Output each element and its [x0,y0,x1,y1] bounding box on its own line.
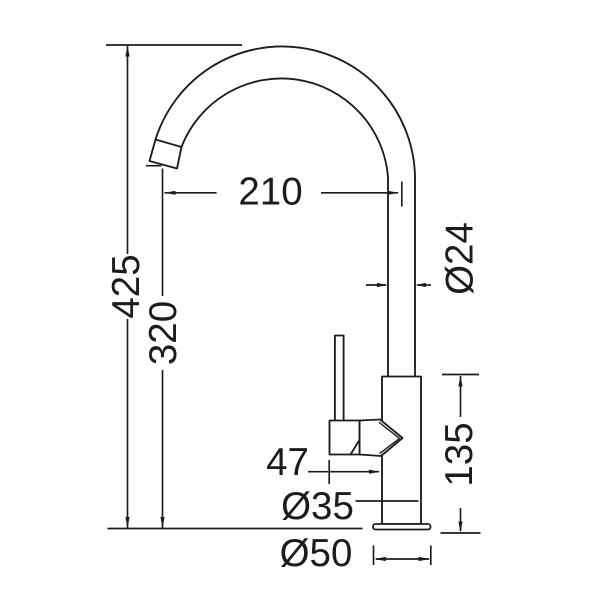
svg-text:47: 47 [266,441,309,484]
svg-text:Ø50: Ø50 [280,532,353,575]
svg-text:Ø35: Ø35 [281,485,354,528]
svg-text:210: 210 [238,171,302,214]
svg-text:135: 135 [438,422,481,486]
svg-text:Ø24: Ø24 [439,222,482,295]
svg-text:320: 320 [142,301,185,365]
